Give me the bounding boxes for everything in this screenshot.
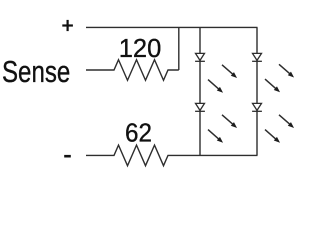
svg-text:62: 62 [125,119,152,148]
svg-text:Sense: Sense [2,54,70,88]
svg-text:120: 120 [119,35,162,63]
